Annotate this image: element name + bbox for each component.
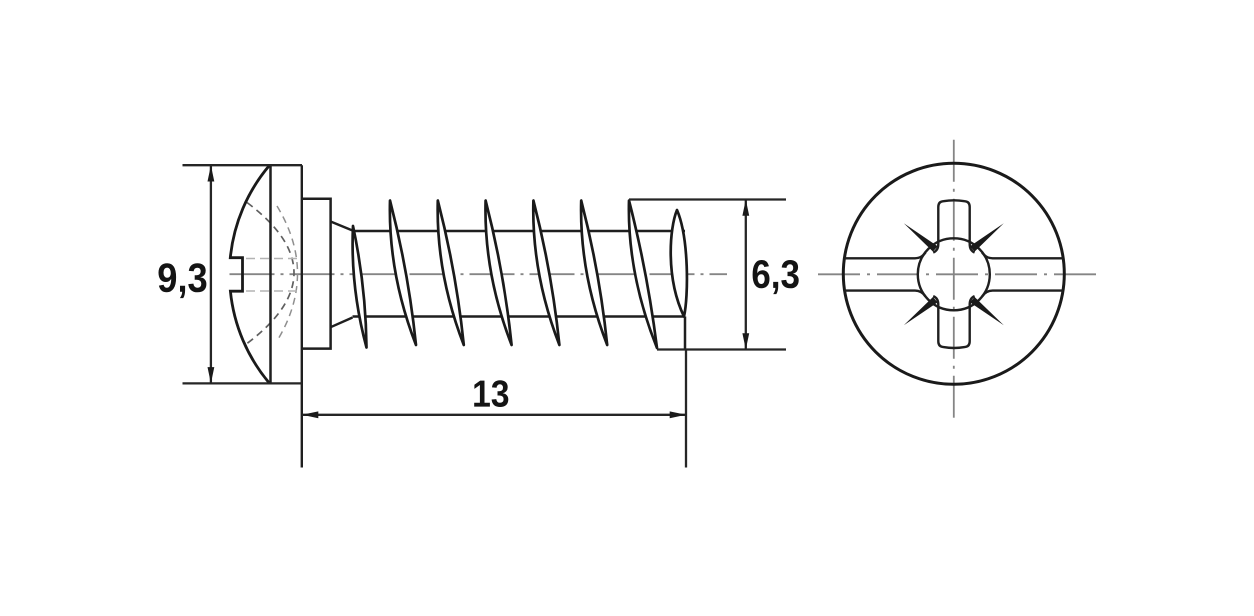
thread root line top xyxy=(353,230,686,232)
thread crest 1 (start) xyxy=(353,226,367,348)
vertical slot lower half xyxy=(933,296,974,348)
13 arrow right xyxy=(670,411,686,418)
9.3 extension line top xyxy=(183,164,303,166)
head outer circle xyxy=(843,163,1064,384)
label 13 xyxy=(474,380,508,407)
horizontal slot upper-left line xyxy=(844,253,925,259)
thread root line bottom xyxy=(353,315,686,317)
6.3 extension line bottom xyxy=(657,348,786,350)
thread crest 4 xyxy=(485,201,511,346)
6.3 arrow down xyxy=(742,333,749,349)
horizontal slot lower-right line xyxy=(982,291,1063,297)
under-head cone bottom xyxy=(331,318,353,328)
end view vertical centerline xyxy=(953,140,955,423)
9.3 extension line bottom xyxy=(183,382,303,384)
9.3 arrow down xyxy=(208,367,215,383)
thread crest 6 xyxy=(581,201,607,346)
horizontal slot upper-right line xyxy=(982,253,1063,259)
horizontal slot lower-left line xyxy=(845,291,926,297)
6.3 arrow up xyxy=(742,200,749,216)
9.3 arrow up xyxy=(208,165,215,181)
collar under head xyxy=(302,199,331,349)
thread crest 2 xyxy=(390,201,416,346)
vertical slot upper half xyxy=(933,200,974,252)
pozidriv wing tick upper-right xyxy=(970,223,1004,251)
thread crest 5 xyxy=(533,201,559,346)
thread crest 7 xyxy=(629,201,657,349)
thread crest 8 (tip end) xyxy=(671,210,687,317)
hidden slot-bottom line upper xyxy=(246,258,298,260)
head dome outline with slot notch xyxy=(230,165,269,383)
pozidriv wing tick lower-right xyxy=(970,297,1004,325)
under-head cone top xyxy=(331,222,353,231)
pozidriv wing tick upper-left xyxy=(904,223,938,251)
13 arrow left xyxy=(302,411,318,418)
9.3 dimension line xyxy=(210,165,212,383)
screw end face xyxy=(684,317,687,350)
pozidriv wing tick lower-left xyxy=(904,297,938,325)
hidden recess cone dashed curve xyxy=(247,203,294,344)
head face / left extension of 13 xyxy=(301,165,303,467)
13 extension line right xyxy=(685,350,687,468)
13 dimension line xyxy=(302,414,686,416)
recess inner circle xyxy=(918,238,990,310)
centerline screw axis xyxy=(230,273,728,275)
label 9,3 xyxy=(159,263,207,298)
6.3 dimension line xyxy=(745,200,747,350)
hidden slot-bottom line lower xyxy=(246,290,298,292)
6.3 extension line top xyxy=(629,198,786,200)
hidden recess inner dashed arc xyxy=(277,206,298,341)
label 6,3 xyxy=(753,260,799,294)
thread crest 3 xyxy=(438,201,464,346)
head dome tangent line xyxy=(269,165,272,383)
end view horizontal centerline xyxy=(818,273,1100,275)
